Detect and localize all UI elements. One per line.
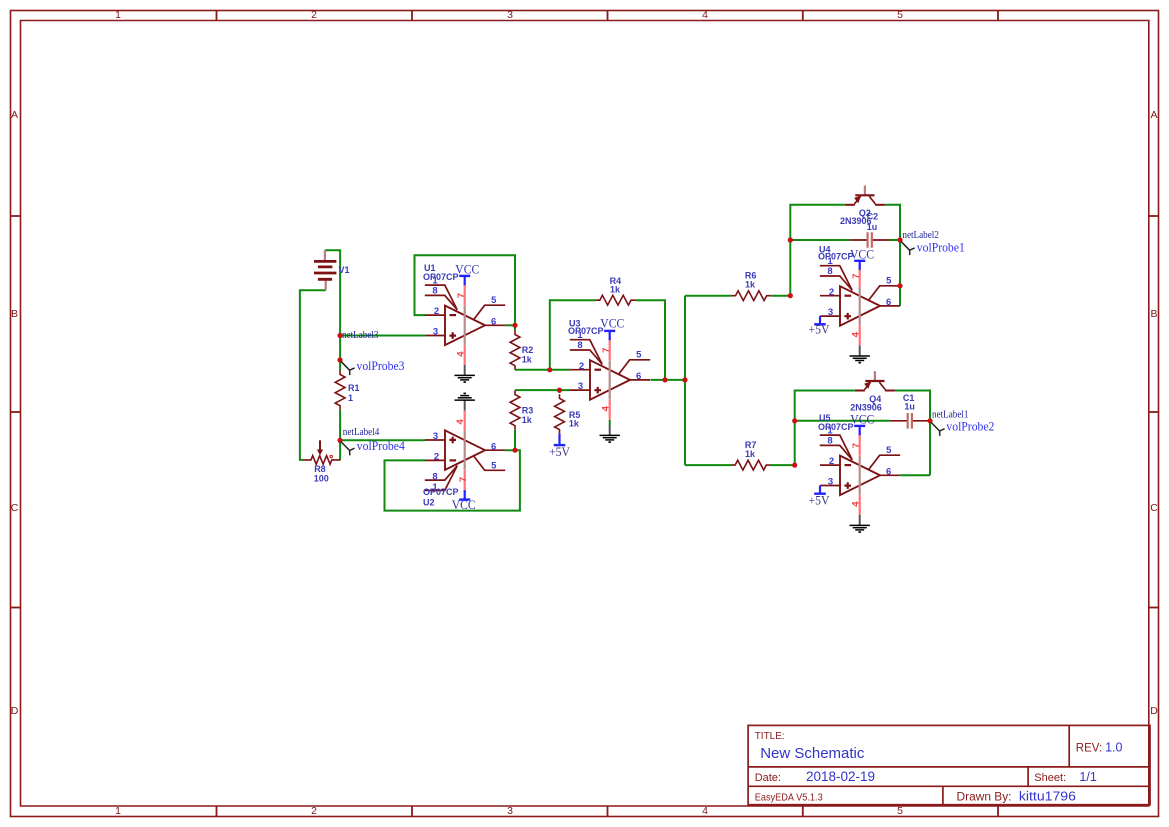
svg-text:3: 3 — [507, 9, 513, 21]
svg-text:volProbe4: volProbe4 — [357, 439, 406, 453]
svg-text:A: A — [11, 109, 18, 121]
svg-text:Sheet:: Sheet: — [1034, 772, 1066, 784]
svg-text:OP07CP: OP07CP — [818, 252, 854, 262]
svg-text:4: 4 — [702, 805, 708, 817]
svg-text:VCC: VCC — [850, 246, 874, 261]
svg-text:R3: R3 — [522, 405, 534, 415]
svg-text:2018-02-19: 2018-02-19 — [806, 769, 875, 784]
svg-text:1: 1 — [115, 805, 121, 817]
svg-text:5: 5 — [897, 9, 903, 21]
svg-text:+5V: +5V — [809, 322, 831, 337]
svg-text:6: 6 — [491, 441, 496, 452]
svg-text:2: 2 — [311, 805, 317, 817]
svg-text:netLabel4: netLabel4 — [343, 427, 380, 438]
svg-text:Date:: Date: — [755, 772, 781, 784]
svg-text:D: D — [1150, 705, 1158, 717]
svg-text:OP07CP: OP07CP — [423, 272, 459, 282]
svg-text:A: A — [1150, 109, 1157, 121]
svg-text:netLabel2: netLabel2 — [902, 230, 939, 241]
svg-text:7: 7 — [458, 477, 469, 482]
svg-text:4: 4 — [455, 419, 466, 425]
svg-text:1k: 1k — [522, 415, 533, 425]
svg-text:B: B — [11, 308, 18, 320]
svg-text:1.0: 1.0 — [1105, 741, 1122, 755]
svg-text:B: B — [1150, 308, 1157, 320]
svg-text:New Schematic: New Schematic — [760, 745, 865, 762]
svg-text:1k: 1k — [745, 449, 756, 459]
svg-text:1/1: 1/1 — [1079, 770, 1096, 784]
svg-text:VCC: VCC — [600, 315, 624, 330]
svg-text:VCC: VCC — [850, 411, 874, 426]
svg-text:R1: R1 — [348, 383, 360, 393]
svg-text:VCC: VCC — [452, 497, 476, 512]
svg-text:3: 3 — [433, 431, 438, 442]
svg-text:D: D — [11, 705, 19, 717]
svg-text:OP07CP: OP07CP — [818, 422, 854, 432]
svg-text:OP07CP: OP07CP — [423, 487, 459, 497]
svg-text:1u: 1u — [904, 402, 915, 412]
svg-text:EasyEDA V5.1.3: EasyEDA V5.1.3 — [755, 793, 823, 804]
svg-text:TITLE:: TITLE: — [755, 731, 785, 742]
svg-text:+5V: +5V — [549, 444, 571, 459]
svg-text:100: 100 — [314, 474, 329, 484]
svg-text:C2: C2 — [867, 212, 879, 222]
svg-text:volProbe2: volProbe2 — [946, 419, 994, 433]
svg-text:1k: 1k — [745, 280, 756, 290]
svg-text:2: 2 — [311, 9, 317, 21]
svg-text:1k: 1k — [522, 355, 533, 365]
svg-text:VCC: VCC — [455, 261, 479, 276]
svg-text:1k: 1k — [610, 285, 621, 295]
svg-text:V1: V1 — [339, 265, 350, 275]
svg-text:R2: R2 — [522, 345, 534, 355]
svg-text:1u: 1u — [867, 222, 878, 232]
svg-text:2N3906: 2N3906 — [850, 403, 882, 413]
svg-text:REV:: REV: — [1076, 743, 1102, 755]
svg-text:OP07CP: OP07CP — [568, 326, 604, 336]
svg-text:5: 5 — [897, 805, 903, 817]
svg-text:Drawn By:: Drawn By: — [957, 792, 1012, 804]
svg-text:volProbe1: volProbe1 — [917, 240, 965, 254]
svg-text:netLabel3: netLabel3 — [342, 330, 379, 341]
svg-text:3: 3 — [507, 805, 513, 817]
svg-text:1: 1 — [348, 393, 353, 403]
svg-text:+5V: +5V — [809, 493, 831, 508]
svg-text:U2: U2 — [423, 498, 435, 508]
svg-text:kittu1796: kittu1796 — [1019, 790, 1076, 804]
svg-text:C: C — [1150, 502, 1158, 514]
svg-text:volProbe3: volProbe3 — [357, 359, 405, 373]
svg-text:1: 1 — [115, 9, 121, 21]
svg-text:4: 4 — [702, 9, 708, 21]
svg-text:1k: 1k — [569, 419, 580, 429]
svg-text:R8: R8 — [314, 464, 326, 474]
svg-text:C: C — [11, 502, 19, 514]
svg-text:5: 5 — [491, 461, 497, 472]
svg-text:2: 2 — [434, 452, 439, 463]
